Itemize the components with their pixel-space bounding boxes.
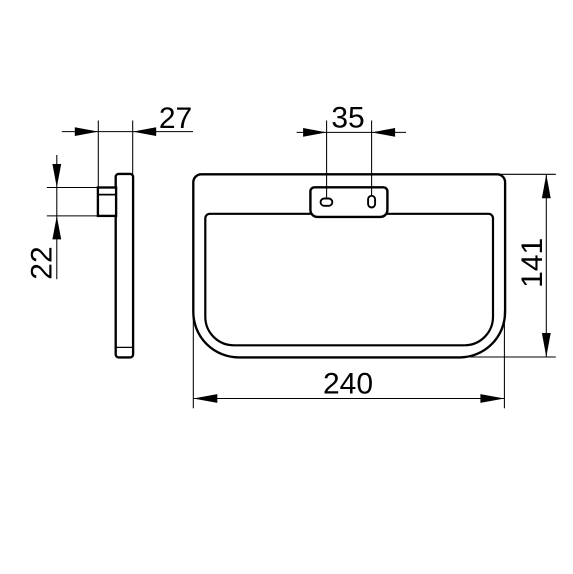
dimension 35: extension line left bbox=[326, 121, 328, 199]
svg-text:240: 240 bbox=[323, 367, 373, 400]
dimension 141: top arrow bbox=[542, 174, 551, 198]
dimension 22: dimension line bbox=[56, 155, 58, 279]
dimension 35: right arrow bbox=[372, 128, 396, 137]
dimension 141: dimension line bbox=[545, 174, 547, 357]
side view: wall mount block bbox=[98, 188, 116, 216]
dimension 141: extension line top bbox=[497, 173, 556, 175]
dimension 240: left arrow bbox=[193, 394, 217, 403]
dimension 27: dimension line bbox=[62, 131, 193, 133]
dimension 35: left arrow bbox=[303, 128, 327, 137]
dimension 141: bottom arrow bbox=[542, 333, 551, 357]
front view: left slot hole bbox=[321, 199, 333, 206]
svg-text:35: 35 bbox=[331, 102, 364, 135]
dimension 27: extension line left bbox=[97, 121, 99, 188]
front view: outer ring outline bbox=[193, 174, 505, 357]
dimension 27: left arrow bbox=[75, 127, 99, 136]
dimension 141: extension line bottom bbox=[470, 356, 556, 358]
svg-text:141: 141 bbox=[516, 238, 549, 288]
side view: ring profile plate bbox=[116, 174, 133, 358]
dimension 22: top arrow bbox=[52, 164, 61, 188]
dimension 240: extension line left bbox=[192, 311, 194, 408]
dimension 35: dimension line bbox=[297, 131, 406, 133]
dimension 240: right arrow bbox=[480, 394, 504, 403]
side view: bottom seam line bbox=[116, 346, 132, 348]
dimension 240: dimension line bbox=[193, 398, 504, 400]
front view: inner ring outline bbox=[205, 214, 493, 345]
dimension 27: extension line right bbox=[132, 121, 134, 175]
svg-text:22: 22 bbox=[25, 246, 58, 279]
front view: right slot hole bbox=[368, 196, 375, 208]
front view: wall mount plate bbox=[310, 187, 387, 217]
svg-text:27: 27 bbox=[159, 102, 192, 135]
side view: block inner line bbox=[98, 194, 116, 196]
dimension 22: bottom arrow bbox=[52, 216, 61, 240]
dimension 27: right arrow bbox=[133, 127, 157, 136]
dimension 22: extension line top bbox=[47, 187, 116, 189]
dimension 35: extension line right bbox=[371, 121, 373, 196]
dimension 22: extension line bottom bbox=[47, 215, 116, 217]
dimension 240: extension line right bbox=[503, 311, 505, 408]
